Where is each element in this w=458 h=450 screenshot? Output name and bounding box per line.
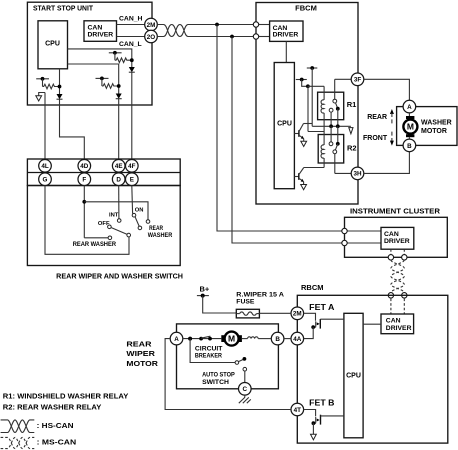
- node FBCM CAN_L: [253, 34, 269, 39]
- svg-text:FET A: FET A: [309, 303, 334, 312]
- FET B: [304, 399, 344, 435]
- svg-text:REAR WASHER: REAR WASHER: [73, 241, 116, 248]
- pin C (rear wiper motor): [239, 383, 252, 396]
- arrow to other circuit: [349, 128, 353, 134]
- wire washer motor B to 3H: [364, 152, 410, 174]
- wire CPU to 4D net: [59, 69, 61, 94]
- wire G to switch pivot: [45, 186, 129, 255]
- node CAN_H junction: [215, 23, 219, 27]
- chassis ground below C: [239, 395, 251, 403]
- pin D: [112, 173, 125, 186]
- relay R2 box: [318, 135, 356, 164]
- CAN driver (instrument cluster): [381, 227, 414, 249]
- svg-text:START STOP UNIT: START STOP UNIT: [33, 3, 93, 12]
- diode on 4F net: [129, 67, 135, 160]
- wire CAN driver to CPU (FBCM): [285, 41, 287, 62]
- svg-text:G: G: [43, 177, 48, 184]
- resistor network on 4E net: [96, 77, 121, 89]
- svg-text:FBCM: FBCM: [295, 3, 317, 12]
- rear/front direction arrow: [363, 109, 394, 146]
- svg-text:WIPER: WIPER: [126, 349, 155, 358]
- svg-text:REAR WIPER AND WASHER SWITCH: REAR WIPER AND WASHER SWITCH: [56, 273, 183, 280]
- rear washer contact left: [73, 236, 116, 248]
- contact ON: [132, 207, 143, 217]
- svg-text:CPU: CPU: [45, 40, 60, 47]
- diode on 4E net: [116, 94, 122, 160]
- node RBCM MS-CAN right: [402, 293, 407, 314]
- wire CAN_L: [117, 37, 145, 49]
- wire fuse to 2M: [259, 312, 291, 314]
- svg-text:INT: INT: [109, 213, 119, 219]
- svg-text:FRONT: FRONT: [363, 135, 388, 142]
- pin 4D: [78, 160, 91, 173]
- ground Q1: [301, 141, 307, 146]
- CPU (FBCM): [274, 63, 294, 189]
- svg-text:D: D: [116, 177, 121, 184]
- pin 2O (start stop unit): [145, 30, 158, 43]
- circuit breaker: [195, 336, 223, 359]
- svg-text:2O: 2O: [147, 34, 156, 41]
- wire B to 4A: [284, 338, 291, 340]
- node cluster CAN_H: [342, 228, 381, 233]
- node CAN_L junction: [230, 35, 234, 39]
- wire CPU to 4E net: [68, 64, 119, 94]
- rear washer switch lever (right): [135, 217, 142, 230]
- svg-text:CAN_L: CAN_L: [119, 41, 142, 48]
- legend text R1: [3, 394, 129, 401]
- auto stop switch: [202, 357, 247, 386]
- svg-text:R1: WINDSHIELD WASHER RELAY: R1: WINDSHIELD WASHER RELAY: [3, 394, 129, 401]
- svg-text:CIRCUIT: CIRCUIT: [195, 346, 223, 353]
- start stop unit box: [27, 2, 152, 105]
- svg-text:R1: R1: [347, 100, 357, 109]
- pin 4A (RBCM): [291, 332, 304, 345]
- relay R2 contact: [329, 126, 340, 173]
- svg-text:REAR: REAR: [126, 339, 152, 348]
- svg-text:OFF: OFF: [98, 221, 110, 227]
- svg-text:FET B: FET B: [309, 399, 334, 408]
- pin 4T (RBCM): [291, 403, 304, 416]
- relay contact feed rail: [312, 124, 351, 128]
- svg-text:CPU: CPU: [277, 120, 292, 127]
- relay R1 contact: [329, 79, 339, 126]
- CAN driver (RBCM): [381, 314, 414, 334]
- wire F to washer contacts: [82, 186, 148, 238]
- svg-text:DRIVER: DRIVER: [88, 31, 114, 38]
- ground (start stop unit): [36, 93, 45, 102]
- wire D to INT contact: [118, 186, 120, 219]
- svg-text:CAN_H: CAN_H: [119, 16, 143, 23]
- pin A (washer motor): [403, 100, 416, 113]
- svg-text:B: B: [407, 143, 412, 150]
- svg-text:4A: 4A: [293, 336, 302, 343]
- CAN driver (FBCM): [270, 21, 303, 41]
- pin 3F: [335, 73, 364, 86]
- diode on 4D net: [57, 94, 85, 160]
- svg-text:R2: REAR WASHER RELAY: R2: REAR WASHER RELAY: [3, 405, 102, 412]
- svg-text:AUTO STOP: AUTO STOP: [202, 372, 235, 379]
- wire CPU to CAN driver (RBCM): [363, 323, 381, 325]
- svg-text:R2: R2: [347, 144, 357, 153]
- connector strip (rear wiper and washer switch): [27, 159, 180, 186]
- wire A to circuit breaker: [183, 337, 222, 341]
- svg-text:WASHER: WASHER: [148, 233, 173, 239]
- node RBCM MS-CAN left: [388, 293, 393, 314]
- FBCM box: [256, 3, 358, 205]
- FET A: [304, 303, 344, 339]
- HS-CAN twisted pair (top): [157, 25, 253, 37]
- contact OFF: [98, 221, 111, 229]
- svg-text:DRIVER: DRIVER: [273, 32, 299, 39]
- pin 4E: [112, 160, 125, 173]
- svg-text:RBCM: RBCM: [301, 283, 324, 292]
- CAN driver (start stop unit): [84, 21, 117, 42]
- svg-text:A: A: [174, 336, 179, 343]
- contact INT: [109, 213, 121, 223]
- MS-CAN stub right (cluster): [402, 249, 407, 260]
- wire breaker junction to auto stop switch: [190, 339, 235, 363]
- svg-text:MOTOR: MOTOR: [126, 359, 158, 368]
- svg-text:M: M: [228, 334, 235, 344]
- svg-text:B: B: [275, 336, 280, 343]
- pin F: [78, 173, 91, 186]
- pin A (rear wiper motor): [170, 332, 183, 345]
- pin B (washer motor): [403, 139, 416, 152]
- rear wiper motor box: [126, 324, 278, 389]
- pin 4L: [39, 160, 52, 173]
- svg-text:2M: 2M: [293, 311, 302, 318]
- svg-text:MOTOR: MOTOR: [421, 128, 447, 135]
- svg-text:REAR: REAR: [149, 226, 164, 232]
- node B+: [197, 285, 210, 298]
- relay R1 coil: [321, 86, 324, 131]
- svg-text:INSTRUMENT CLUSTER: INSTRUMENT CLUSTER: [350, 207, 441, 216]
- switch box (rear wiper and washer switch): [27, 186, 183, 281]
- supply stub node (relay contact feed): [307, 66, 318, 126]
- resistor network on 4D net: [36, 77, 61, 89]
- ground FET B: [311, 434, 317, 440]
- relay R2 coil: [321, 132, 324, 168]
- transistor Q2: [294, 168, 324, 185]
- svg-text:BREAKER: BREAKER: [195, 353, 222, 360]
- MS-CAN twisted pair: [391, 260, 404, 293]
- instrument cluster box: [345, 207, 448, 258]
- svg-text:SWITCH: SWITCH: [202, 379, 229, 386]
- legend HS-CAN icon: [1, 420, 74, 433]
- svg-text:: MS-CAN: : MS-CAN: [37, 439, 76, 446]
- svg-text:FUSE: FUSE: [236, 299, 255, 306]
- wire CAN_H to instrument cluster: [217, 25, 342, 232]
- wire CAN_L to instrument cluster: [232, 37, 342, 244]
- svg-text:A: A: [407, 104, 412, 111]
- svg-text:CAN: CAN: [386, 317, 401, 324]
- svg-text:4F: 4F: [128, 163, 136, 170]
- pin E: [126, 173, 139, 186]
- pin G: [39, 173, 52, 186]
- svg-text:2M: 2M: [147, 22, 156, 29]
- transistor Q1: [294, 124, 312, 142]
- svg-text:DRIVER: DRIVER: [384, 238, 410, 245]
- svg-text:: HS-CAN: : HS-CAN: [37, 423, 74, 430]
- pin 3H: [335, 167, 364, 180]
- rear washer contact right: [146, 220, 173, 240]
- svg-text:ON: ON: [135, 207, 144, 213]
- svg-text:DRIVER: DRIVER: [386, 325, 412, 332]
- wire E to ON contact: [131, 186, 134, 214]
- legend text R2: [3, 405, 102, 412]
- svg-text:4L: 4L: [41, 163, 49, 170]
- rear wiper motor M: [221, 332, 242, 346]
- svg-text:C: C: [243, 386, 248, 393]
- CPU U1 (start stop unit): [38, 21, 68, 69]
- svg-text:F: F: [82, 177, 86, 184]
- RBCM box: [297, 283, 448, 443]
- svg-text:B+: B+: [200, 285, 210, 294]
- svg-text:CPU: CPU: [346, 372, 361, 379]
- wire A to 4T: [165, 339, 291, 410]
- svg-text:4E: 4E: [115, 163, 123, 170]
- wire 3F to washer motor A: [364, 79, 410, 100]
- pin B (rear wiper motor): [271, 332, 284, 345]
- resistor network on 4F net: [109, 51, 134, 63]
- washer motor box: [397, 107, 457, 146]
- pin 2M (RBCM): [291, 307, 304, 320]
- pin 2M (start stop unit): [145, 18, 158, 31]
- MS-CAN stub left (cluster): [388, 249, 393, 260]
- svg-text:WASHER: WASHER: [421, 120, 452, 127]
- ground Q2: [301, 185, 307, 190]
- inductor (rear wiper motor): [242, 337, 271, 339]
- legend MS-CAN icon: [1, 437, 77, 448]
- CPU (RBCM): [344, 313, 363, 438]
- wire B+ to fuse: [203, 296, 237, 313]
- pin 4F: [126, 160, 139, 173]
- wire CPU to 4F net: [68, 49, 132, 67]
- svg-text:REAR: REAR: [367, 114, 387, 121]
- svg-text:M: M: [407, 122, 414, 132]
- svg-text:4D: 4D: [80, 163, 89, 170]
- svg-text:4T: 4T: [294, 407, 302, 414]
- relay R1 box: [318, 92, 357, 120]
- fuse R.WIPER 15 A: [236, 292, 284, 318]
- svg-text:3H: 3H: [353, 171, 362, 178]
- wire 4L net: [44, 93, 46, 160]
- wiper switch lever (left): [111, 228, 131, 237]
- node cluster CAN_L: [342, 240, 381, 245]
- svg-text:E: E: [130, 177, 134, 184]
- svg-text:3F: 3F: [354, 77, 362, 84]
- wire CAN_H: [117, 16, 145, 25]
- washer motor M: [403, 113, 417, 139]
- supply stub node (relay coil feed): [296, 78, 324, 132]
- node FBCM CAN_H: [253, 22, 269, 27]
